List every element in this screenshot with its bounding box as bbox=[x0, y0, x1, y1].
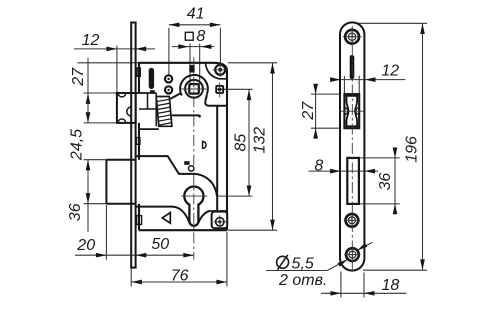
svg-text:132: 132 bbox=[252, 127, 269, 154]
svg-text:2 отв.: 2 отв. bbox=[278, 272, 327, 289]
svg-text:27: 27 bbox=[300, 101, 317, 121]
svg-text:36: 36 bbox=[67, 203, 84, 221]
svg-text:8: 8 bbox=[196, 28, 205, 45]
svg-text:76: 76 bbox=[171, 267, 189, 284]
svg-text:12: 12 bbox=[381, 63, 399, 80]
svg-text:85: 85 bbox=[233, 134, 250, 152]
svg-text:18: 18 bbox=[382, 277, 400, 294]
svg-text:41: 41 bbox=[187, 5, 205, 22]
svg-text:24,5: 24,5 bbox=[69, 129, 86, 161]
svg-text:8: 8 bbox=[314, 158, 323, 175]
svg-text:20: 20 bbox=[76, 237, 95, 254]
svg-text:196: 196 bbox=[403, 136, 420, 163]
svg-text:50: 50 bbox=[151, 236, 169, 253]
svg-text:36: 36 bbox=[377, 173, 394, 191]
svg-text:5,5: 5,5 bbox=[292, 255, 314, 272]
svg-text:27: 27 bbox=[70, 67, 87, 87]
svg-text:12: 12 bbox=[82, 32, 100, 49]
